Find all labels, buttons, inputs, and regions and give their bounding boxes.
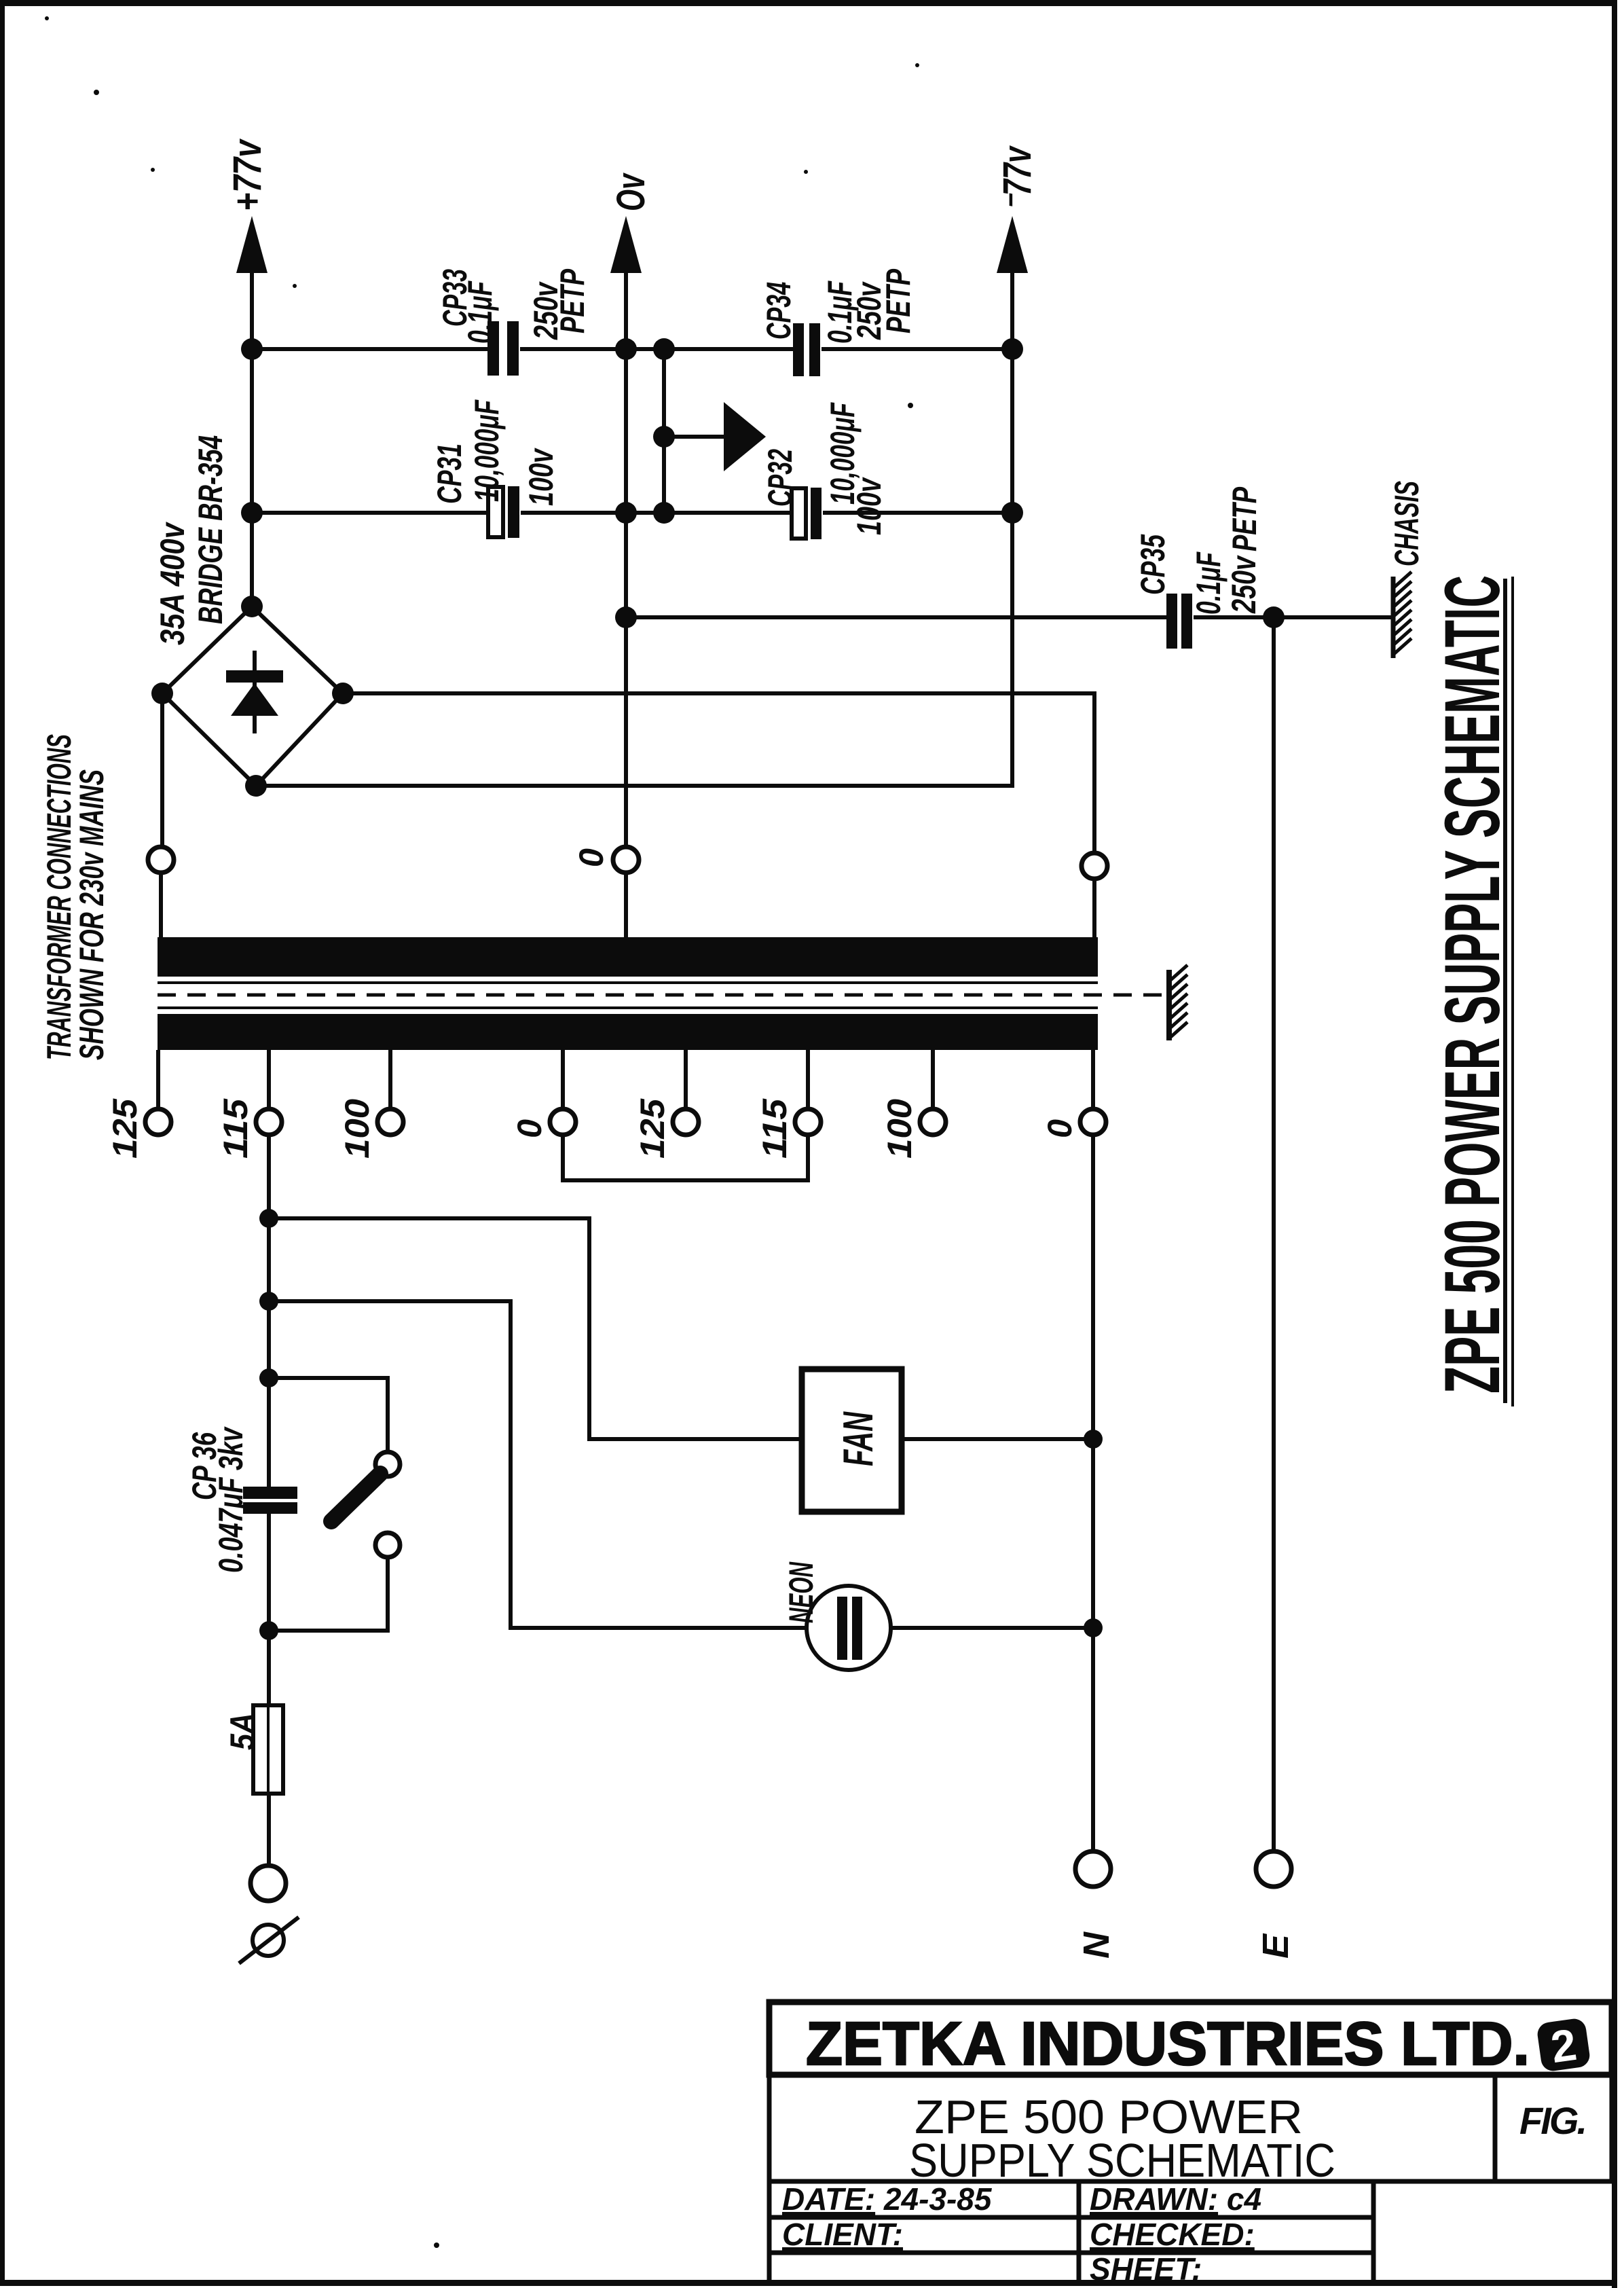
svg-text:CP31: CP31: [430, 443, 468, 504]
svg-text:0.047μF 3kv: 0.047μF 3kv: [212, 1426, 250, 1573]
svg-text:PETP: PETP: [553, 269, 591, 333]
svg-text:SUPPLY SCHEMATIC: SUPPLY SCHEMATIC: [909, 2134, 1335, 2187]
svg-text:CP34: CP34: [760, 282, 798, 340]
svg-text:SHOWN FOR 230v MAINS: SHOWN FOR 230v MAINS: [73, 769, 111, 1060]
svg-text:250v: 250v: [1225, 555, 1263, 614]
svg-text:CHECKED:: CHECKED:: [1090, 2217, 1255, 2252]
svg-text:100v: 100v: [522, 448, 560, 506]
svg-text:CHASIS: CHASIS: [1388, 481, 1426, 566]
svg-text:ZETKA INDUSTRIES LTD.: ZETKA INDUSTRIES LTD.: [806, 2010, 1530, 2078]
svg-text:CLIENT:: CLIENT:: [782, 2217, 903, 2252]
svg-text:DRAWN: c4: DRAWN: c4: [1090, 2181, 1261, 2217]
svg-text:0: 0: [511, 1119, 549, 1138]
svg-text:CP35: CP35: [1134, 534, 1172, 595]
svg-text:NEON: NEON: [782, 1561, 820, 1623]
svg-text:125: 125: [106, 1098, 144, 1159]
svg-text:N: N: [1076, 1931, 1117, 1959]
svg-text:100: 100: [881, 1099, 919, 1159]
svg-text:Ov: Ov: [609, 172, 653, 211]
svg-text:115: 115: [756, 1098, 794, 1159]
svg-text:5A: 5A: [223, 1713, 261, 1750]
svg-text:10,000μF: 10,000μF: [468, 399, 506, 502]
svg-text:SHEET:: SHEET:: [1090, 2251, 1202, 2287]
svg-text:115: 115: [217, 1098, 255, 1159]
svg-text:0: 0: [1041, 1119, 1079, 1138]
svg-text:E: E: [1255, 1933, 1296, 1959]
svg-text:DATE: 24-3-85: DATE: 24-3-85: [782, 2181, 993, 2217]
svg-text:100: 100: [338, 1099, 376, 1159]
svg-text:PETP: PETP: [879, 269, 917, 333]
svg-text:BRIDGE BR-354: BRIDGE BR-354: [191, 435, 229, 624]
svg-text:FIG.: FIG.: [1519, 2099, 1587, 2142]
svg-text:ZPE 500 POWER SUPPLY SCHEMATIC: ZPE 500 POWER SUPPLY SCHEMATIC: [1429, 575, 1516, 1394]
svg-text:100v: 100v: [850, 477, 888, 535]
svg-text:CP32: CP32: [761, 449, 799, 507]
svg-text:0.1μF: 0.1μF: [461, 280, 499, 344]
svg-text:0: 0: [572, 848, 610, 867]
svg-text:35A 400v: 35A 400v: [153, 521, 191, 645]
svg-text:⁻77v: ⁻77v: [995, 145, 1039, 211]
svg-text:FAN: FAN: [835, 1411, 882, 1466]
svg-text:PETP: PETP: [1225, 487, 1263, 551]
svg-text:125: 125: [633, 1098, 671, 1159]
svg-text:0.1μF: 0.1μF: [1189, 551, 1228, 615]
svg-text:+77v: +77v: [225, 139, 270, 211]
